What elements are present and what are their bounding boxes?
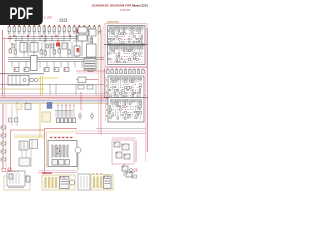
A2b part 20 bbox=[125, 106, 127, 108]
wire gray under A2 bbox=[96, 128, 146, 130]
A2a pin 74 bbox=[129, 94, 132, 97]
A1b wire 1 bbox=[109, 50, 111, 52]
A2a part 43 bbox=[117, 89, 119, 91]
IC U11 bbox=[78, 27, 87, 33]
motor B1 bbox=[75, 147, 81, 153]
wire tap bbox=[21, 35, 23, 42]
A1b wire 6 bbox=[121, 50, 123, 52]
A2b pin 59 bbox=[124, 114, 127, 117]
A1a part 56 bbox=[141, 38, 142, 40]
A2a part 10 bbox=[132, 81, 134, 83]
A1a part 67 bbox=[134, 41, 135, 43]
IC U3 bbox=[62, 43, 67, 49]
A1b pin 38 bbox=[130, 55, 133, 58]
A2a part 3 bbox=[115, 81, 117, 82]
connector P4 bbox=[1, 150, 6, 153]
A2b wire v 62 bbox=[132, 114, 134, 116]
wire tap to bus bbox=[55, 85, 57, 96]
switch S2 bbox=[30, 140, 38, 149]
capacitor C9 bbox=[58, 48, 61, 53]
A2a part 55 bbox=[115, 92, 116, 94]
wire tan run bbox=[14, 134, 44, 136]
A2a wire 6 bbox=[122, 81, 124, 83]
IC U15 bbox=[78, 77, 86, 83]
A1b pin 59 bbox=[113, 61, 116, 64]
A2b wire v 42 bbox=[115, 111, 117, 113]
part M1 edge bbox=[26, 176, 30, 182]
connector J7 bbox=[38, 25, 40, 34]
A1a pin 52 bbox=[130, 38, 133, 41]
A2a pin 58 bbox=[121, 92, 124, 95]
IC U1 bbox=[20, 43, 27, 53]
A2a wire 1 bbox=[110, 81, 112, 83]
A2a pin 13 bbox=[139, 80, 142, 83]
M2 bar 1 bbox=[45, 177, 47, 188]
A1a part 45 bbox=[114, 38, 115, 40]
A1b wire v 47 bbox=[119, 58, 121, 60]
A2b pin 77 bbox=[136, 116, 139, 119]
wire tap bbox=[27, 35, 29, 42]
svg-text:SCHEMATIC DIAGRAM FOR Model 22: SCHEMATIC DIAGRAM FOR Model 2231 bbox=[92, 3, 149, 7]
A2a pin header row bbox=[111, 78, 142, 81]
capacitor C11 bbox=[90, 37, 93, 42]
resistor R5 bbox=[54, 68, 59, 72]
jumper W2 bbox=[111, 69, 114, 74]
A2b pin 21 bbox=[126, 105, 129, 108]
jumper W8 bbox=[137, 69, 140, 74]
wire yellow frame top of T1 bbox=[47, 131, 78, 133]
wire pink cross bbox=[76, 72, 106, 74]
A1b part 63 bbox=[124, 61, 126, 63]
wire h-bus b2 bbox=[8, 59, 104, 61]
A2b part 46 bbox=[125, 111, 127, 113]
wire pink v bbox=[98, 75, 100, 133]
A2a part 69 bbox=[117, 95, 118, 97]
wire pink v pair bbox=[102, 26, 104, 100]
A2b wire v 57 bbox=[120, 114, 122, 116]
A2a wire v 18 bbox=[120, 84, 122, 86]
A1a part 32 bbox=[116, 36, 118, 38]
A2b part 2 bbox=[112, 103, 113, 104]
A2a part 72 bbox=[125, 95, 127, 97]
node dots row bbox=[20, 41, 75, 42]
A1b wire 28 bbox=[141, 53, 143, 55]
A1a pin 35 bbox=[123, 35, 126, 38]
node dot bbox=[11, 43, 12, 44]
wire h-bus a1 bbox=[8, 36, 88, 38]
wire column divider 1 bbox=[44, 28, 46, 57]
A1a wire v 15 bbox=[109, 33, 111, 35]
A1b part 19 bbox=[119, 53, 120, 55]
wire gray drop 2 bbox=[16, 104, 18, 126]
lamp DS2 bbox=[34, 78, 38, 82]
wire bbox=[135, 140, 137, 162]
T1 winding bbox=[52, 155, 68, 157]
A1a part 39 bbox=[134, 36, 136, 38]
A1a part 43 bbox=[109, 38, 111, 39]
M3 bar 3 bbox=[100, 177, 102, 189]
A1b part 15 bbox=[109, 53, 111, 54]
resistor R3 bbox=[24, 68, 29, 72]
A2b wire 65 bbox=[140, 114, 142, 116]
jumper W3 bbox=[115, 69, 118, 74]
A2a wire v 23 bbox=[132, 84, 134, 86]
A1b wire 42 bbox=[141, 56, 143, 58]
connector P2 bbox=[1, 134, 6, 137]
wire red frame v bbox=[10, 130, 12, 172]
A1a pin 64 bbox=[125, 41, 128, 44]
A1b part 33 bbox=[119, 56, 120, 58]
A2b part 31 bbox=[120, 109, 122, 111]
A2a wire 44 bbox=[120, 89, 122, 91]
wire tap bbox=[39, 62, 41, 68]
A2a part 52 bbox=[140, 89, 141, 92]
A2a part 29 bbox=[115, 87, 116, 88]
capacitor C10 bbox=[68, 49, 71, 54]
transformer T2 tan box bbox=[42, 112, 51, 122]
wire drop bbox=[15, 42, 17, 57]
wire tap bbox=[63, 35, 65, 42]
wire drop 1 bbox=[57, 104, 59, 118]
wire red v bbox=[100, 30, 102, 135]
wire yellow run bbox=[14, 136, 44, 138]
connector J10 bbox=[53, 25, 55, 34]
A1a wire 33 bbox=[119, 36, 121, 38]
wire drop bbox=[49, 42, 51, 57]
connector J6 bbox=[33, 25, 35, 34]
wire pink drop left bbox=[5, 104, 7, 168]
connector J5 bbox=[28, 25, 30, 34]
A2 left pins bbox=[106, 79, 107, 80]
A2a part 66 bbox=[110, 95, 112, 97]
A1b wire 17 bbox=[114, 53, 116, 55]
label row red bbox=[50, 137, 72, 138]
A2b wire v 63 bbox=[135, 114, 137, 116]
wire tap bbox=[81, 62, 83, 68]
jumper W9 bbox=[142, 69, 145, 74]
connector J18 bbox=[93, 25, 95, 34]
A1b part 10 bbox=[131, 50, 133, 51]
small part above row 2 bbox=[64, 19, 67, 22]
T1 centre pins bbox=[57, 148, 60, 154]
wire red branch bbox=[3, 37, 12, 39]
wire tap bbox=[75, 35, 77, 42]
relay K2 bbox=[19, 158, 30, 166]
wire A2 divider bbox=[104, 97, 148, 99]
assembly M1 inner bbox=[7, 171, 25, 186]
A1a part 68 bbox=[136, 41, 138, 42]
A2a pin 32 bbox=[121, 86, 124, 89]
A2a pin 51 bbox=[136, 89, 139, 92]
A1a part 27 bbox=[139, 33, 141, 34]
A2b wire v 29 bbox=[115, 109, 117, 111]
wire red mid bbox=[76, 79, 98, 81]
A2a part 65 bbox=[140, 92, 141, 94]
M3 motor unit bbox=[104, 176, 112, 189]
IC U5 tall bbox=[31, 56, 38, 71]
A2b wire v 49 bbox=[132, 111, 134, 113]
capacitor C3 bbox=[51, 44, 54, 48]
A2a wire 67 bbox=[112, 95, 114, 97]
A2b part 50 bbox=[135, 111, 137, 113]
A1b pin 13 bbox=[138, 49, 141, 52]
connector J14 bbox=[73, 25, 75, 34]
A2b part 40 bbox=[110, 111, 111, 113]
connector J4 bbox=[23, 25, 25, 34]
wire bus pink bbox=[0, 94, 146, 96]
A2b wire v 38 bbox=[137, 109, 139, 111]
A2a pin 27 bbox=[109, 86, 112, 89]
M1 red pins bbox=[8, 171, 18, 172]
A1b pin 40 bbox=[135, 55, 138, 58]
A1b part 26 bbox=[136, 53, 137, 55]
A1b part 25 bbox=[134, 53, 136, 55]
wire tap bbox=[69, 35, 71, 42]
wire tap bbox=[53, 62, 55, 68]
A2b wire v 22 bbox=[130, 106, 132, 108]
A1a part 20 bbox=[121, 33, 123, 35]
wire rose under A2 bbox=[76, 133, 146, 135]
A1a pin 46 bbox=[115, 38, 118, 41]
wire red frame centre v bbox=[44, 129, 46, 175]
jumper W6 bbox=[129, 69, 132, 74]
A1a part 44 bbox=[111, 38, 112, 40]
filter FL2 bbox=[25, 103, 31, 110]
wire drop bbox=[27, 42, 29, 57]
wire drop 5 bbox=[73, 104, 75, 118]
A1b pin 58 bbox=[110, 61, 113, 64]
A2a wire 11 bbox=[135, 81, 137, 83]
IC U12 bbox=[78, 35, 87, 41]
red pin dots above drops bbox=[58, 105, 75, 106]
A1a wire 34 bbox=[121, 36, 123, 38]
A2b wire 8 bbox=[127, 103, 129, 105]
A2a part 26 bbox=[140, 84, 142, 87]
connector J8 bbox=[43, 25, 45, 34]
svg-text:PDF: PDF bbox=[10, 5, 34, 23]
A2a wire 36 bbox=[132, 87, 134, 89]
connector J9 bbox=[48, 25, 50, 34]
A2b part 69 bbox=[117, 117, 119, 119]
wire bbox=[80, 92, 82, 110]
wire red frame h bbox=[11, 129, 45, 131]
A1b wire 69 bbox=[139, 61, 141, 63]
connector J17 bbox=[88, 25, 90, 34]
A1b wire 64 bbox=[126, 61, 128, 63]
A1a pin 50 bbox=[125, 38, 128, 41]
connector P3 bbox=[1, 142, 6, 145]
wire tap bbox=[15, 35, 17, 42]
A2a wire v 5 bbox=[120, 81, 122, 83]
A1a pin 22 bbox=[125, 32, 128, 35]
A2b wire v 43 bbox=[117, 111, 119, 113]
connector P1 bbox=[1, 126, 6, 129]
wire drop bbox=[53, 42, 55, 57]
wire tap bbox=[11, 62, 13, 68]
connector J13 bbox=[68, 25, 70, 34]
IC U4 bbox=[74, 46, 80, 56]
A2a wire 73 bbox=[127, 95, 129, 97]
wire tan v bbox=[97, 28, 99, 75]
A1a part 70 bbox=[141, 41, 142, 43]
wire red frame centre h bbox=[45, 128, 78, 130]
A1b part 54 bbox=[136, 58, 138, 60]
connector comb bbox=[55, 111, 73, 117]
A1a wire 4 bbox=[116, 30, 118, 32]
wire bbox=[87, 33, 89, 44]
wire tap bbox=[51, 35, 53, 42]
A2a part 59 bbox=[125, 92, 127, 93]
A2a pin 50 bbox=[134, 89, 137, 92]
A1a wire v 58 bbox=[111, 41, 113, 43]
A1a part 1 bbox=[109, 30, 110, 32]
A2a part 71 bbox=[122, 95, 124, 98]
IC U2 bbox=[30, 43, 38, 53]
connector J3 bbox=[18, 25, 20, 34]
A1a part 69 bbox=[139, 41, 140, 42]
wire drop bbox=[23, 42, 25, 57]
T1 winding tap bbox=[55, 144, 57, 158]
small part above row bbox=[60, 19, 63, 22]
A2b wire v 78 bbox=[140, 117, 142, 119]
A1a part 42 bbox=[141, 36, 143, 38]
part A3-4 bbox=[124, 154, 130, 159]
A1a part 5 bbox=[119, 30, 120, 32]
M2 label red bbox=[42, 173, 52, 174]
A1b pin 34 bbox=[120, 55, 123, 58]
module A3 frame bbox=[112, 140, 134, 164]
M3 red top marks bbox=[92, 173, 101, 174]
M3 bar 1 bbox=[93, 177, 95, 189]
A2a part 47 bbox=[127, 89, 128, 90]
wire red feed bbox=[2, 30, 4, 97]
A1b wire 65 bbox=[129, 61, 131, 63]
wire bus blue bbox=[0, 100, 113, 102]
M2 bar 3 bbox=[52, 177, 54, 188]
A1b wire 62 bbox=[121, 61, 123, 63]
T1 winding bbox=[52, 149, 68, 151]
wire heavy bbox=[0, 73, 44, 75]
part A3-5 bbox=[122, 166, 128, 171]
module A1 tan label bbox=[107, 21, 119, 23]
T1 winding bbox=[52, 147, 68, 149]
assembly M2 outer tan bbox=[42, 175, 75, 190]
capacitor C1 bbox=[12, 44, 15, 48]
A2b part 25 bbox=[137, 106, 139, 109]
relay K3 (blue) bbox=[47, 103, 52, 109]
resistor R1 (red) bbox=[56, 43, 60, 47]
T1 winding bbox=[52, 151, 68, 153]
A1a wire 9 bbox=[129, 30, 131, 32]
wire red right rail bbox=[146, 28, 148, 152]
A2a part 62 bbox=[132, 92, 134, 95]
A2a wire 70 bbox=[120, 95, 122, 97]
A2a part 75 bbox=[132, 95, 134, 97]
resistor R11 (red) bbox=[77, 29, 80, 33]
switch S1 bbox=[19, 141, 28, 150]
A2b wire v 44 bbox=[120, 111, 122, 113]
assembly M3 tan box bbox=[91, 175, 113, 191]
A2a wire 21 bbox=[127, 84, 129, 86]
A1a part 2 bbox=[111, 30, 113, 32]
wire tap bbox=[9, 35, 11, 42]
wire rose bottom 2 bbox=[38, 171, 78, 173]
T1 sub rect 3 bbox=[65, 160, 70, 166]
wire tap bbox=[46, 62, 48, 68]
A1a part 54 bbox=[136, 38, 137, 40]
A1b wire 5 bbox=[119, 50, 121, 52]
capacitor C6 bbox=[40, 49, 43, 54]
diode D5 bbox=[72, 118, 76, 123]
A2b part 14 bbox=[110, 106, 111, 108]
A2b part 17 bbox=[117, 106, 119, 107]
module A1 sub-box 2 bbox=[108, 46, 146, 65]
resistor R7 bbox=[88, 68, 93, 72]
assembly M1 outer tan bbox=[4, 176, 30, 190]
wire bbox=[81, 41, 83, 56]
resistor R6 bbox=[64, 68, 69, 72]
A1a pin 6 bbox=[120, 29, 123, 32]
wire drop 4 bbox=[69, 104, 71, 118]
wire tap bbox=[32, 62, 34, 68]
A1a pin 31 bbox=[113, 35, 116, 38]
A1b pin 18 bbox=[115, 52, 118, 55]
A2a wire 20 bbox=[125, 84, 127, 86]
A2b part 73 bbox=[127, 117, 129, 118]
A2b part 18 bbox=[120, 106, 121, 108]
A2b part 19 bbox=[122, 106, 123, 108]
A1a pin 29 bbox=[108, 35, 111, 38]
A2a wire 53 bbox=[110, 92, 112, 94]
A2b part 76 bbox=[135, 117, 137, 119]
A2a pin 31 bbox=[119, 86, 122, 89]
jumper W7 bbox=[133, 69, 136, 74]
A2a pin 24 bbox=[134, 83, 137, 86]
wire drop bbox=[41, 42, 43, 57]
A2a part 68 bbox=[115, 95, 117, 96]
A1b wire 55 bbox=[139, 58, 141, 60]
M3 bar 2 bbox=[97, 177, 99, 189]
wire bbox=[123, 164, 125, 176]
relay K1 bbox=[8, 76, 29, 86]
M2 rotor bbox=[69, 180, 74, 185]
A2a pin 12 bbox=[136, 80, 139, 83]
A1a part 16 bbox=[111, 33, 113, 34]
A2b part 4 bbox=[117, 103, 118, 105]
A2b pin 30 bbox=[116, 108, 119, 111]
wire gray drop 1 bbox=[11, 104, 13, 126]
wire tap bbox=[74, 62, 76, 68]
wire drop bbox=[59, 42, 61, 57]
diode D2 bbox=[60, 118, 64, 123]
A2b wire 74 bbox=[130, 117, 132, 119]
wire tap bbox=[25, 62, 27, 68]
wire tap bbox=[39, 35, 41, 42]
module A1 outer pink frame bbox=[105, 24, 147, 67]
A2b wire 15 bbox=[112, 106, 114, 108]
M2 bar 2 bbox=[48, 177, 50, 188]
A1a wire 14 bbox=[141, 30, 143, 32]
module A1 sub-box 1 bbox=[108, 26, 146, 45]
A2a pin 8 bbox=[126, 80, 129, 83]
A2a part 35 bbox=[130, 87, 132, 89]
A1a part 65 bbox=[129, 41, 131, 42]
wire drop 2 bbox=[61, 104, 63, 118]
diode D4 bbox=[68, 118, 72, 123]
wire A1 divider bbox=[104, 44, 148, 46]
part A3-3 bbox=[116, 152, 122, 158]
power transformer T1 bbox=[48, 141, 77, 167]
